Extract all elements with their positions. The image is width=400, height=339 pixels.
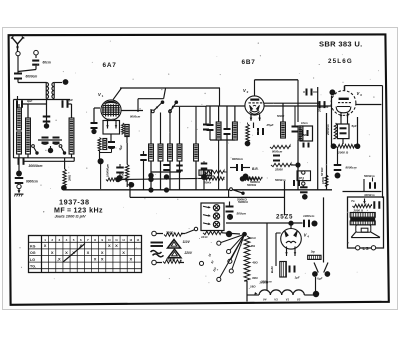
svg-text:2: 2: [51, 238, 53, 242]
svg-text:16Ω: 16Ω: [250, 285, 256, 289]
svg-text:2000cm: 2000cm: [326, 124, 330, 136]
svg-text:220V: 220V: [184, 251, 193, 255]
svg-text:8000cm: 8000cm: [232, 157, 243, 161]
svg-text:1000cm: 1000cm: [303, 214, 315, 218]
svg-text:PU: PU: [299, 176, 304, 180]
svg-text:4: 4: [66, 238, 68, 242]
svg-text:6000cm: 6000cm: [26, 180, 38, 184]
svg-text:500KΩ: 500KΩ: [247, 183, 257, 187]
svg-text:2030Ω: 2030Ω: [165, 257, 176, 261]
svg-text:60Ω: 60Ω: [252, 276, 258, 280]
svg-text:X: X: [115, 243, 118, 248]
svg-text:X: X: [94, 256, 97, 261]
svg-text:8000cm: 8000cm: [130, 115, 141, 119]
svg-text:2000cm: 2000cm: [260, 280, 272, 284]
svg-text:5: 5: [73, 238, 75, 242]
svg-text:TG.: TG.: [30, 264, 36, 268]
svg-text:LG: LG: [30, 258, 35, 262]
svg-text:750Ω: 750Ω: [166, 230, 174, 234]
svg-text:6: 6: [80, 238, 82, 242]
svg-text:10.Ω: 10.Ω: [201, 235, 208, 239]
svg-text:SBR 383 U.: SBR 383 U.: [319, 40, 363, 49]
svg-text:8: 8: [94, 238, 96, 242]
svg-text:5pF: 5pF: [352, 124, 357, 128]
svg-text:110V: 110V: [183, 240, 191, 244]
svg-text:½μF: ½μF: [317, 277, 323, 281]
svg-text:6B7: 6B7: [242, 59, 256, 66]
svg-text:X: X: [44, 243, 47, 248]
svg-text:X: X: [122, 250, 125, 255]
svg-text:25000: 25000: [274, 168, 283, 172]
svg-text:6000cm: 6000cm: [26, 75, 38, 79]
svg-text:X: X: [51, 250, 54, 255]
svg-text:V3: V3: [274, 297, 278, 301]
svg-text:20Ke: 20Ke: [203, 180, 212, 184]
svg-text:2000 Ω: 2000 Ω: [337, 151, 349, 155]
svg-text:25L6G: 25L6G: [328, 58, 353, 65]
svg-text:X: X: [65, 250, 68, 255]
svg-text:X: X: [129, 256, 132, 261]
svg-text:100000μm: 100000μm: [105, 163, 109, 177]
svg-text:500cm: 500cm: [237, 212, 247, 216]
svg-text:3: 3: [58, 238, 60, 242]
svg-text:1: 1: [44, 238, 46, 242]
svg-text:2000 Ω: 2000 Ω: [353, 208, 364, 212]
svg-text:X: X: [101, 250, 104, 255]
svg-text:2MΩ: 2MΩ: [67, 174, 71, 182]
svg-text:2000cm: 2000cm: [317, 101, 321, 113]
svg-text:KG: KG: [30, 245, 36, 249]
svg-text:5000cm: 5000cm: [364, 174, 375, 178]
svg-text:50000: 50000: [121, 171, 125, 179]
svg-text:6A7: 6A7: [103, 62, 117, 69]
svg-text:B.R.: B.R.: [252, 167, 259, 171]
svg-text:Jauts 1000 Ω p/V: Jauts 1000 Ω p/V: [55, 214, 87, 219]
svg-text:9: 9: [101, 238, 103, 242]
svg-text:X: X: [87, 250, 90, 255]
svg-text:9pF: 9pF: [27, 99, 33, 103]
svg-text:10cm: 10cm: [301, 121, 308, 125]
svg-text:V2: V2: [297, 297, 301, 301]
svg-text:LS: LS: [362, 246, 368, 251]
svg-text:500KΩ: 500KΩ: [237, 198, 247, 202]
svg-text:X: X: [101, 256, 104, 261]
svg-text:V4: V4: [263, 297, 267, 301]
svg-text:30000cm: 30000cm: [29, 164, 43, 168]
svg-text:1937-38: 1937-38: [59, 197, 90, 206]
svg-text:40Ω: 40Ω: [251, 261, 258, 265]
svg-text:10KΩ: 10KΩ: [321, 176, 325, 184]
svg-text:60cm: 60cm: [43, 61, 51, 65]
svg-text:OG: OG: [30, 251, 36, 255]
svg-text:To: To: [351, 199, 355, 203]
svg-text:20KΩ: 20KΩ: [205, 174, 215, 178]
svg-text:50 KΩ: 50 KΩ: [320, 167, 324, 176]
svg-text:BeKr: BeKr: [270, 265, 274, 273]
svg-text:50000: 50000: [277, 114, 285, 118]
svg-text:8000cm: 8000cm: [272, 150, 283, 154]
svg-text:1μF: 1μF: [295, 276, 300, 280]
svg-text:X: X: [108, 243, 111, 248]
svg-text:MΩ: MΩ: [251, 244, 255, 248]
svg-text:25μF: 25μF: [266, 123, 274, 127]
svg-text:7: 7: [87, 238, 89, 242]
svg-text:40pF: 40pF: [65, 98, 73, 102]
svg-text:V1: V1: [286, 297, 290, 301]
